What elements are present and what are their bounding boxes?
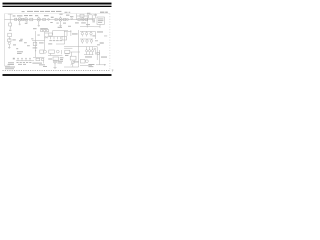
capacitor C2: [78, 18, 80, 20]
test point: [94, 48, 96, 50]
module box M1: [80, 59, 85, 63]
label: [51, 17, 54, 18]
wire: [32, 40, 45, 42]
wire: [16, 60, 34, 62]
ground: [9, 38, 11, 41]
label: [33, 47, 38, 48]
capacitor row: [18, 58, 30, 60]
box U9: [70, 56, 76, 60]
box U12: [36, 58, 40, 60]
wire: [80, 25, 94, 27]
trimmer TC2: [44, 30, 46, 32]
wire: [77, 14, 88, 20]
speaker SP1: [53, 60, 56, 63]
wire with arrow: [96, 64, 104, 66]
box U7: [62, 36, 67, 40]
capacitor C9: [42, 58, 44, 60]
mixer U2: [24, 18, 27, 21]
capacitor C1: [15, 18, 17, 20]
frame border: [5, 14, 111, 66]
wire: [70, 52, 80, 56]
frame right border (dashed): [109, 14, 111, 70]
capacitor C8: [43, 50, 46, 53]
coil L3: [90, 32, 92, 34]
ground: [38, 25, 40, 28]
resistor R1: [48, 19, 50, 21]
connector J1: [97, 52, 99, 54]
test points: [45, 37, 46, 38]
wire: [95, 14, 97, 19]
wire: [64, 30, 71, 36]
label: [24, 15, 28, 16]
wire stub: [60, 16, 62, 25]
labels: [49, 39, 62, 42]
transformer T1: [8, 33, 12, 36]
crystal X2: [9, 23, 12, 26]
labels: [32, 63, 47, 67]
wire: [94, 31, 96, 39]
trimmer TC1: [41, 30, 43, 32]
wire: [43, 61, 45, 64]
capacitor C6: [86, 60, 89, 63]
coil L4: [81, 40, 83, 42]
wire: [99, 50, 101, 65]
wire: [87, 52, 93, 55]
label: [35, 15, 38, 16]
filter FL3: [43, 18, 46, 20]
label: [25, 23, 28, 24]
resistor drops: [51, 37, 61, 40]
labels: [88, 64, 94, 67]
choke drops: [87, 47, 93, 50]
top double rule (header): [3, 3, 112, 7]
capacitor C4: [8, 42, 10, 44]
oscillator box X3: [89, 15, 93, 19]
ground: [53, 66, 56, 69]
label: [31, 35, 40, 40]
bottom-left fine print: [5, 58, 15, 69]
labels: [65, 53, 79, 62]
label: [101, 57, 107, 58]
wire: [44, 32, 46, 50]
trimmer TC3: [47, 30, 49, 32]
label: [9, 30, 11, 31]
label: [59, 14, 62, 15]
wire: [56, 43, 65, 45]
box U10: [49, 50, 55, 53]
wire: [94, 24, 100, 28]
right-side labels: [95, 31, 107, 45]
label: [93, 14, 97, 15]
wire: [61, 50, 63, 54]
filter FL4: [55, 18, 57, 20]
tick above fold: [112, 69, 114, 71]
coil L1: [81, 32, 83, 34]
wire: [35, 47, 37, 57]
label: [44, 15, 49, 16]
wire: [86, 14, 88, 28]
coil L6: [90, 40, 92, 42]
labels: [48, 57, 63, 63]
wire: [94, 50, 96, 55]
left chain: wire: [9, 19, 11, 23]
capacitor C5: [49, 33, 52, 36]
coil L2: [85, 32, 87, 34]
wire: [9, 26, 11, 29]
mixer U1: [18, 18, 21, 21]
wire: [64, 66, 79, 68]
ground: [59, 25, 61, 28]
wire: bias rail: [48, 36, 63, 38]
wire: main signal bus: [5, 18, 95, 20]
wire: [54, 63, 56, 67]
coupler: [71, 18, 73, 20]
fold line (dashed): [3, 70, 111, 72]
arrow on wire: [35, 50, 36, 51]
wire: [80, 38, 93, 40]
label: [72, 33, 78, 34]
box U8: [65, 50, 70, 53]
filter FL6: [85, 18, 88, 20]
labels upper-left of audio: [17, 51, 23, 54]
coil L7: [86, 50, 88, 52]
box FL7: [40, 50, 44, 53]
labels: [16, 62, 31, 65]
filter FL5: [63, 18, 65, 20]
label: [87, 13, 95, 22]
wire: [35, 31, 37, 47]
mixer U5: [81, 18, 84, 21]
wire: [96, 47, 98, 60]
label: [48, 43, 52, 44]
coil L5: [86, 40, 88, 42]
mixer U3: [37, 18, 40, 21]
filter FL1: [22, 18, 24, 20]
coil L9: [92, 50, 94, 52]
title text: [22, 11, 108, 13]
ground: [19, 23, 21, 26]
ground: [8, 46, 11, 49]
wire stub: [19, 21, 21, 24]
label: [92, 35, 95, 36]
bottom rule: [3, 74, 112, 76]
IC block U6: [97, 17, 104, 24]
wire: [80, 64, 92, 66]
coil L8: [89, 50, 91, 52]
IF module box: [33, 42, 37, 45]
wire: long vertical: [78, 30, 80, 67]
wire: [80, 30, 95, 32]
wire: long horizontal: [64, 46, 97, 48]
capacitor C7: [56, 50, 59, 53]
label: [17, 15, 22, 16]
capacitor C3: [93, 19, 95, 21]
wire: [84, 54, 93, 56]
label: [85, 56, 92, 57]
oscillator box X1: [80, 14, 84, 17]
wire stub: [26, 21, 28, 23]
filter FL2: [30, 18, 33, 21]
wire: [33, 56, 44, 58]
label: [56, 12, 71, 27]
antenna AN1: [8, 14, 13, 19]
box U11: [53, 57, 59, 60]
resistor R2: [66, 18, 68, 20]
mixer U4: [59, 18, 62, 21]
labels: [75, 22, 79, 23]
wire: [48, 53, 62, 55]
label: [13, 15, 16, 16]
wire stub: [38, 17, 40, 26]
wire: [64, 47, 72, 49]
labels mid-left: [12, 39, 29, 49]
wire: [53, 31, 68, 35]
trimmer row labels: [33, 28, 48, 29]
label: [66, 15, 69, 16]
wire branch: [45, 32, 49, 34]
potentiometer VR1: [71, 61, 74, 64]
relay K1: [8, 39, 11, 42]
wire: [64, 31, 66, 44]
